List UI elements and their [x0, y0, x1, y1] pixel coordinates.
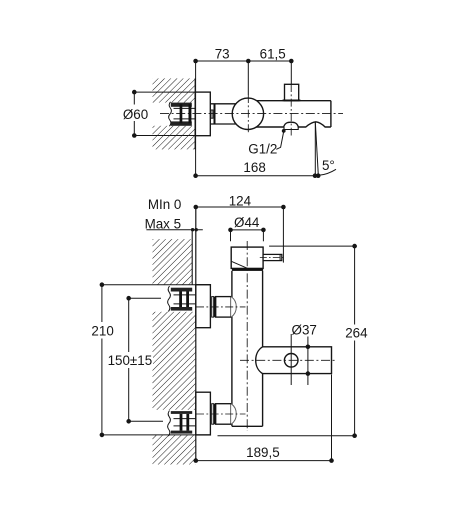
- svg-text:210: 210: [91, 323, 113, 338]
- svg-text:168: 168: [243, 160, 265, 175]
- svg-text:5°: 5°: [322, 158, 335, 173]
- svg-text:Ø37: Ø37: [292, 323, 317, 338]
- svg-text:189,5: 189,5: [246, 445, 280, 460]
- svg-text:150±15: 150±15: [108, 353, 153, 368]
- svg-text:MIn 0: MIn 0: [148, 197, 182, 212]
- svg-text:G1/2: G1/2: [248, 141, 277, 156]
- svg-text:73: 73: [215, 47, 230, 62]
- svg-text:Ø60: Ø60: [123, 107, 148, 122]
- svg-text:Ø44: Ø44: [234, 215, 260, 230]
- svg-text:264: 264: [345, 326, 368, 341]
- svg-text:124: 124: [229, 193, 252, 208]
- svg-text:Max 5: Max 5: [145, 216, 181, 231]
- svg-text:61,5: 61,5: [260, 47, 286, 62]
